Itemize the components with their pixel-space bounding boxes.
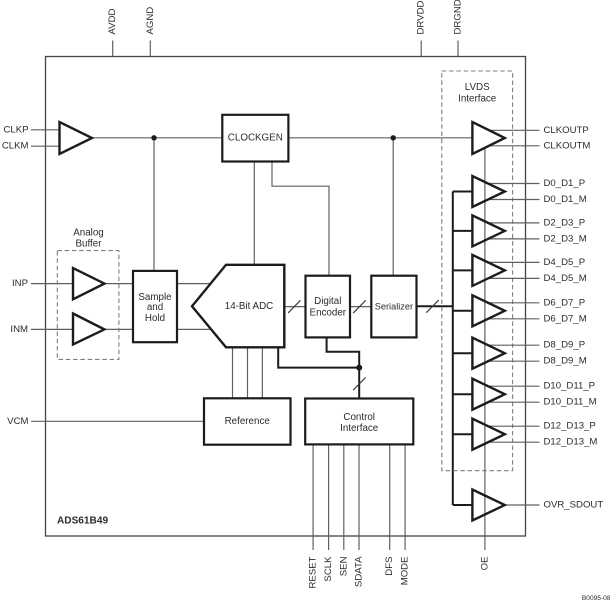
svg-text:VCM: VCM bbox=[7, 416, 28, 427]
svg-text:SCLK: SCLK bbox=[323, 556, 334, 582]
svg-text:ADS61B49: ADS61B49 bbox=[57, 516, 108, 527]
svg-text:OE: OE bbox=[479, 557, 490, 571]
svg-text:CLKP: CLKP bbox=[3, 124, 28, 135]
svg-text:D10_D11_M: D10_D11_M bbox=[544, 397, 597, 408]
svg-text:CLOCKGEN: CLOCKGEN bbox=[228, 132, 283, 143]
svg-text:CLKOUTP: CLKOUTP bbox=[544, 125, 589, 136]
svg-text:Reference: Reference bbox=[225, 416, 271, 427]
svg-text:D4_D5_P: D4_D5_P bbox=[544, 257, 586, 268]
svg-text:DFS: DFS bbox=[384, 557, 395, 576]
svg-text:D2_D3_M: D2_D3_M bbox=[544, 233, 587, 244]
svg-text:D0_D1_M: D0_D1_M bbox=[544, 194, 587, 205]
svg-text:Interface: Interface bbox=[458, 94, 497, 105]
svg-text:D10_D11_P: D10_D11_P bbox=[544, 381, 596, 392]
svg-text:DRVDD: DRVDD bbox=[416, 0, 427, 34]
svg-text:D12_D13_M: D12_D13_M bbox=[544, 437, 598, 448]
svg-text:Serializer: Serializer bbox=[375, 302, 413, 312]
svg-text:14-Bit ADC: 14-Bit ADC bbox=[225, 301, 273, 312]
svg-text:Digital: Digital bbox=[314, 296, 341, 307]
svg-text:Hold: Hold bbox=[145, 313, 165, 324]
svg-text:CLKOUTM: CLKOUTM bbox=[544, 140, 591, 151]
svg-text:D8_D9_M: D8_D9_M bbox=[544, 356, 587, 367]
svg-text:D6_D7_M: D6_D7_M bbox=[544, 313, 587, 324]
svg-text:DRGND: DRGND bbox=[453, 0, 464, 35]
svg-text:and: and bbox=[147, 302, 163, 313]
svg-text:AVDD: AVDD bbox=[107, 8, 118, 34]
svg-text:Interface: Interface bbox=[340, 423, 379, 434]
svg-text:Encoder: Encoder bbox=[310, 308, 347, 319]
svg-text:CLKM: CLKM bbox=[2, 141, 29, 152]
svg-text:OVR_SDOUT: OVR_SDOUT bbox=[544, 500, 604, 511]
svg-text:INP: INP bbox=[12, 278, 28, 289]
svg-text:B0095-08: B0095-08 bbox=[582, 595, 610, 600]
svg-text:D8_D9_P: D8_D9_P bbox=[544, 340, 586, 351]
svg-text:D4_D5_M: D4_D5_M bbox=[544, 273, 587, 284]
svg-text:Analog: Analog bbox=[73, 227, 104, 238]
svg-text:Control: Control bbox=[343, 412, 375, 423]
svg-text:LVDS: LVDS bbox=[465, 82, 490, 93]
svg-text:MODE: MODE bbox=[400, 557, 411, 586]
svg-text:SEN: SEN bbox=[338, 556, 349, 576]
svg-text:INM: INM bbox=[10, 324, 28, 335]
svg-text:D12_D13_P: D12_D13_P bbox=[544, 421, 596, 432]
svg-text:D2_D3_P: D2_D3_P bbox=[544, 217, 586, 228]
svg-text:AGND: AGND bbox=[145, 7, 156, 35]
svg-text:SDATA: SDATA bbox=[354, 556, 365, 587]
svg-text:D0_D1_P: D0_D1_P bbox=[544, 178, 586, 189]
svg-text:D6_D7_P: D6_D7_P bbox=[544, 297, 586, 308]
svg-text:Buffer: Buffer bbox=[76, 238, 103, 249]
svg-text:RESET: RESET bbox=[308, 556, 319, 588]
